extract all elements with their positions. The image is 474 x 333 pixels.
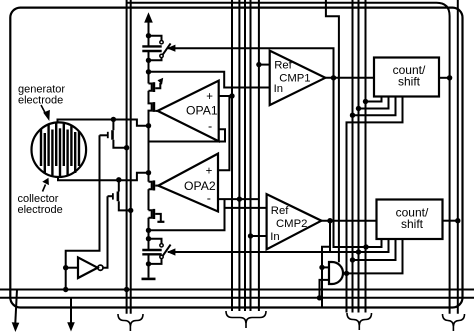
pin arrow out 2 (70, 298, 72, 323)
junction count2 output to right vertical 2 (455, 218, 460, 223)
junction left bus 1 to rail A (124, 287, 129, 292)
junction count1 tap2 (356, 106, 361, 111)
wire integrator node to CMP1 In (149, 72, 270, 88)
wire CMP1 output (325, 77, 374, 79)
svg-text:-: - (207, 191, 211, 205)
wire generator electrode to OPA1 input (58, 120, 149, 126)
transistor Q3 (149, 182, 152, 190)
count/shift box 2 (377, 200, 443, 240)
switch S2 (149, 239, 162, 244)
wire AND in1 from CMP2 output (322, 247, 330, 307)
wire collector electrode to OPA2 node (58, 173, 149, 181)
svg-text:+: + (206, 91, 213, 103)
junction integrator node to CMP1 (146, 69, 151, 74)
junction OPA2 input node (146, 170, 151, 175)
wire OPA2 + reference up to bus (218, 96, 232, 170)
junction generator wire / Q5 drain (111, 117, 116, 122)
brace pin group left (118, 314, 143, 327)
svg-text:CMP2: CMP2 (276, 218, 307, 230)
svg-text:CMP1: CMP1 (279, 72, 310, 84)
junction count2 tap1 (363, 244, 368, 249)
count bus verticals (352, 0, 354, 313)
junction AND output (344, 271, 349, 276)
brace pin group count (347, 313, 372, 326)
main line segment (148, 189, 150, 210)
wire count2 taps (366, 239, 382, 247)
junction collector wire / Q6 drain (116, 177, 121, 182)
main line mid segment (148, 126, 150, 182)
transistor Q1 with bias arrow (149, 84, 152, 91)
svg-text:+: + (206, 165, 213, 177)
svg-text:electrode: electrode (18, 95, 63, 107)
brace pin group center (226, 311, 266, 324)
junction CMP2 output (327, 218, 332, 223)
svg-text:In: In (270, 231, 279, 243)
inverter U3 (78, 257, 98, 278)
bus verticals center (231, 0, 233, 311)
junction S2 return (146, 261, 151, 266)
junction S2 branch (146, 236, 151, 241)
junction OPA1 inverting input node (146, 123, 151, 128)
comparator CMP1 (270, 51, 326, 106)
junction Q5 source to left bus 1 (124, 145, 129, 150)
svg-text:OPA2: OPA2 (184, 179, 216, 193)
junction OPA1 + to bus 1 (229, 93, 234, 98)
wire count2 out (443, 220, 458, 222)
wire OPA1 + input to bus (219, 95, 232, 97)
capacitor C1 (148, 36, 150, 46)
wire CMP2 output (321, 220, 376, 222)
wire OPA2 - to bus2 and CMP2 ref rail (218, 198, 259, 200)
main line segment to C2 (148, 218, 150, 250)
junction C1 top / S1 (146, 33, 151, 38)
comparator CMP2 (267, 194, 322, 249)
wire switch S1 control (168, 48, 334, 78)
generator electrode (32, 122, 87, 177)
wire AND in2 (320, 280, 330, 298)
junction CMP1 Ref to bus 5 (256, 62, 261, 67)
junction S1 return (146, 58, 151, 63)
AND gate U4 (329, 262, 343, 284)
wire CMP1 out down to S2 line (334, 78, 367, 247)
svg-text:In: In (274, 83, 283, 95)
junction count2 tap3 (350, 257, 355, 262)
op-amp OPA1 (158, 81, 219, 142)
brace pin group right (443, 314, 465, 327)
junction AND in1 (319, 265, 324, 270)
wire AND clock from top (326, 0, 339, 262)
supply arrow top (148, 22, 150, 37)
wire switch S2 control from CMP1 (168, 239, 389, 252)
wire top rail to right side (127, 3, 450, 314)
junction CMP2 In to bus 4 (248, 233, 253, 238)
capacitor C2 (142, 249, 161, 251)
wire bottom rail B (0, 297, 474, 299)
wire count1 taps (366, 97, 382, 102)
svg-text:OPA1: OPA1 (186, 104, 218, 118)
junction phase net to rail A (63, 287, 68, 292)
wire inverter output net (103, 196, 108, 268)
svg-text:electrode: electrode (18, 204, 63, 216)
transistor Q5 chopper (112, 119, 114, 130)
ground (142, 278, 156, 281)
svg-text:Ref: Ref (274, 60, 292, 72)
transistor Q2 (149, 91, 152, 126)
junction Q6 source to left bus 2 (128, 208, 133, 213)
switch S1 (149, 36, 162, 41)
wire count1 out (439, 77, 450, 79)
wire right outer vertical (457, 0, 459, 314)
junction CMP1 output (331, 75, 336, 80)
junction count1 output to right vertical 1 (447, 75, 452, 80)
transistor Q4 (149, 210, 152, 218)
junction OPA2 feedback node (146, 228, 151, 233)
pin arrow out 1 (15, 290, 17, 324)
wire CMP2 out down (329, 221, 331, 252)
wire left bus vertical 1 (126, 0, 128, 314)
svg-text:-: - (208, 120, 212, 134)
wire left bus vertical 2 (130, 0, 132, 314)
op-amp OPA2 (158, 154, 218, 212)
transistor Q6 chopper (118, 180, 120, 192)
svg-text:shift: shift (398, 74, 421, 88)
wire bottom rail A (0, 289, 474, 291)
count/shift box 1 (374, 58, 439, 97)
wire CMP2 in from bus (251, 235, 267, 237)
junction OPA2 - to bus 2 (237, 196, 242, 201)
svg-text:shift: shift (401, 217, 424, 231)
wire OPA1 - feedback loop (149, 126, 226, 142)
wire inverter input net (66, 135, 100, 289)
junction count1 tap3 (350, 113, 355, 118)
junction inverter input (63, 265, 68, 270)
svg-text:Ref: Ref (271, 205, 289, 217)
junction count1 tap1 (363, 99, 368, 104)
junction count2 tap2 (356, 249, 361, 254)
wire CMP1 ref (259, 64, 270, 66)
junction AND in2 to rail B (317, 295, 322, 300)
